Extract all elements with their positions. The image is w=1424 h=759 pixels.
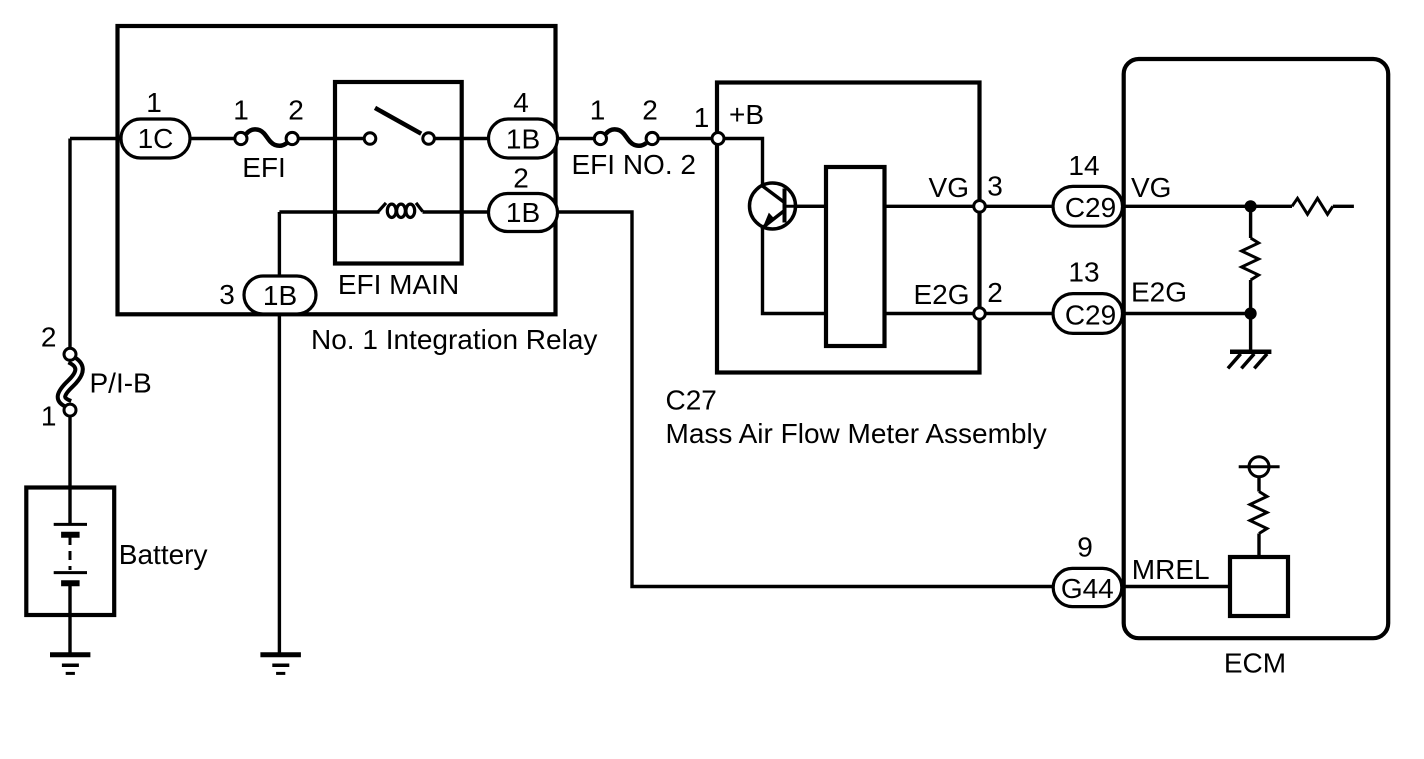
svg-text:2: 2	[288, 95, 304, 126]
svg-text:VG: VG	[1131, 172, 1171, 203]
svg-text:C27: C27	[666, 385, 717, 416]
svg-text:13: 13	[1068, 257, 1099, 288]
svg-text:1C: 1C	[138, 123, 174, 154]
svg-text:Mass Air Flow Meter Assembly: Mass Air Flow Meter Assembly	[666, 418, 1047, 449]
svg-text:1: 1	[233, 95, 249, 126]
svg-text:P/I-B: P/I-B	[90, 367, 152, 398]
svg-text:MREL: MREL	[1132, 554, 1210, 585]
svg-text:Battery: Battery	[119, 539, 208, 570]
svg-text:1: 1	[694, 102, 710, 133]
svg-text:E2G: E2G	[1131, 277, 1187, 308]
svg-text:1: 1	[41, 401, 57, 432]
svg-text:E2G: E2G	[913, 279, 969, 310]
svg-text:1B: 1B	[506, 197, 540, 228]
svg-text:4: 4	[513, 87, 529, 118]
svg-text:C29: C29	[1065, 299, 1116, 330]
svg-text:2: 2	[41, 322, 57, 353]
svg-text:EFI NO. 2: EFI NO. 2	[572, 149, 696, 180]
svg-text:3: 3	[219, 279, 235, 310]
svg-text:1B: 1B	[263, 280, 297, 311]
svg-text:G44: G44	[1061, 573, 1114, 604]
svg-text:14: 14	[1068, 150, 1099, 181]
svg-text:2: 2	[513, 163, 529, 194]
svg-text:VG: VG	[929, 172, 969, 203]
svg-text:9: 9	[1077, 532, 1093, 563]
svg-text:1: 1	[146, 87, 162, 118]
svg-text:3: 3	[987, 171, 1003, 202]
svg-text:2: 2	[987, 277, 1003, 308]
svg-text:1: 1	[590, 95, 606, 126]
svg-text:No. 1 Integration Relay: No. 1 Integration Relay	[311, 324, 597, 355]
svg-text:2: 2	[642, 95, 658, 126]
svg-text:1B: 1B	[506, 124, 540, 155]
svg-text:+B: +B	[729, 99, 764, 130]
svg-text:EFI MAIN: EFI MAIN	[338, 269, 459, 300]
svg-text:EFI: EFI	[242, 152, 286, 183]
svg-text:ECM: ECM	[1224, 648, 1286, 679]
svg-text:C29: C29	[1065, 192, 1116, 223]
